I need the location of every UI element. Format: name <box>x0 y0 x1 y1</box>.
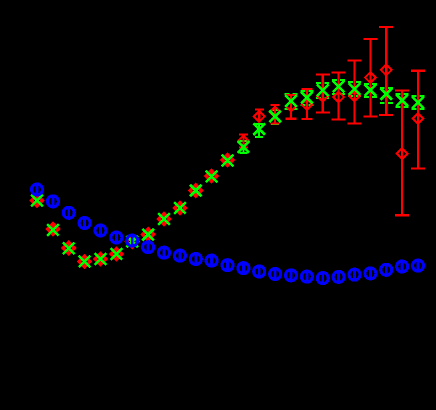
blue series open circle marker, point 23 <box>381 264 392 275</box>
red series open diamond marker, point 15 <box>254 111 265 122</box>
blue series open circle marker, point 10 <box>174 250 185 261</box>
red series error bar, point 18 <box>301 89 312 119</box>
blue series error bar, point 23 <box>385 263 388 277</box>
red series open diamond marker, point 22 <box>365 72 376 83</box>
green series error bar, point 6 <box>115 250 117 259</box>
blue series error bar, point 25 <box>417 259 420 273</box>
green series error bar, point 21 <box>348 82 361 96</box>
green series error bar, point 10 <box>179 204 181 213</box>
red series error bar, point 20 <box>332 73 346 120</box>
green series X cross marker, point 13 <box>222 155 234 167</box>
blue series error bar, point 3 <box>67 206 70 220</box>
blue series open circle marker, point 24 <box>397 261 408 272</box>
red series error bar, point 4 <box>83 259 85 265</box>
red series error bar, point 21 <box>348 61 362 124</box>
blue series error bar, point 4 <box>83 216 86 230</box>
blue series error bar, point 9 <box>163 246 166 260</box>
green series X cross marker, point 12 <box>206 171 218 183</box>
red series error bar, point 11 <box>195 188 197 194</box>
red series open diamond marker, point 4 <box>79 256 90 267</box>
blue series open circle marker, point 25 <box>413 260 424 271</box>
green series error bar, point 14 <box>239 141 247 153</box>
red series error bar, point 12 <box>211 173 213 179</box>
red series error bar, point 14 <box>239 135 248 148</box>
red series open diamond marker, point 13 <box>222 154 233 165</box>
red series open diamond marker, point 1 <box>31 195 42 206</box>
red series open diamond marker, point 21 <box>349 91 360 102</box>
blue series error bar, point 16 <box>274 267 277 281</box>
blue series error bar, point 1 <box>36 183 39 197</box>
blue series error bar, point 19 <box>321 271 324 285</box>
green series X cross marker, point 22 <box>365 84 377 96</box>
blue series open circle marker, point 21 <box>349 269 360 280</box>
blue series open circle marker, point 16 <box>270 269 281 280</box>
green series error bar, point 11 <box>195 186 197 195</box>
blue series open circle marker, point 6 <box>111 232 122 243</box>
green series error bar, point 3 <box>68 244 70 253</box>
red series open diamond marker, point 12 <box>206 170 217 181</box>
green series X cross marker, point 17 <box>285 95 297 107</box>
red series open diamond marker, point 25 <box>413 113 424 124</box>
blue series error bar, point 13 <box>226 258 229 272</box>
green series X cross marker, point 14 <box>238 141 250 153</box>
blue series open circle marker, point 14 <box>238 263 249 274</box>
green series X cross marker, point 4 <box>79 256 91 268</box>
blue series open circle marker, point 15 <box>254 266 265 277</box>
green series error bar, point 23 <box>380 88 393 103</box>
blue series error bar, point 20 <box>337 270 340 284</box>
green series X cross marker, point 9 <box>158 213 170 225</box>
red series error bar, point 17 <box>286 95 297 119</box>
blue series open circle marker, point 2 <box>47 196 58 207</box>
red series open diamond marker, point 7 <box>127 236 138 247</box>
green series error bar, point 13 <box>226 156 228 165</box>
green series error bar, point 9 <box>163 215 165 224</box>
red series error bar, point 9 <box>163 216 165 222</box>
red series error bar, point 3 <box>68 245 70 251</box>
blue series error bar, point 7 <box>131 234 134 248</box>
blue series open circle marker, point 18 <box>301 271 312 282</box>
green series error bar, point 22 <box>364 84 377 97</box>
blue series open circle marker, point 11 <box>190 254 201 265</box>
red series error bar, point 2 <box>52 226 54 232</box>
green series X cross marker, point 19 <box>317 84 329 96</box>
red series open diamond marker, point 5 <box>95 253 106 264</box>
blue series error bar, point 15 <box>258 265 261 279</box>
green series error bar, point 7 <box>131 237 133 246</box>
red series error bar, point 13 <box>226 157 228 163</box>
green series error bar, point 18 <box>300 91 313 105</box>
green series error bar, point 17 <box>285 94 298 109</box>
blue series open circle marker, point 22 <box>365 268 376 279</box>
red series open diamond marker, point 17 <box>286 101 297 112</box>
blue series error bar, point 18 <box>305 270 308 284</box>
blue series open circle marker, point 1 <box>32 184 43 195</box>
green series error bar, point 12 <box>211 172 213 181</box>
blue series error bar, point 24 <box>401 260 404 274</box>
green series X cross marker, point 18 <box>301 92 313 104</box>
green series X cross marker, point 6 <box>111 248 123 260</box>
green series X cross marker, point 25 <box>412 97 424 109</box>
blue series error bar, point 6 <box>115 231 118 245</box>
red series error bar, point 7 <box>131 239 133 245</box>
blue series open circle marker, point 19 <box>317 273 328 284</box>
blue series error bar, point 10 <box>178 249 181 263</box>
red series open diamond marker, point 10 <box>174 202 185 213</box>
red series open diamond marker, point 9 <box>158 213 169 224</box>
red series open diamond marker, point 16 <box>270 107 281 118</box>
green series X cross marker, point 7 <box>127 236 139 248</box>
blue series open circle marker, point 4 <box>79 218 90 229</box>
blue series error bar, point 8 <box>147 240 150 254</box>
red series error bar, point 23 <box>379 27 393 115</box>
green series error bar, point 2 <box>52 226 54 235</box>
red series error bar, point 1 <box>36 198 38 204</box>
red series error bar, point 10 <box>179 205 181 211</box>
green series error bar, point 19 <box>316 83 329 98</box>
green series X cross marker, point 24 <box>396 95 408 107</box>
blue series open circle marker, point 3 <box>63 207 74 218</box>
green series X cross marker, point 15 <box>253 123 265 135</box>
blue series error bar, point 11 <box>194 252 197 266</box>
green series X cross marker, point 16 <box>269 111 281 123</box>
red series error bar, point 24 <box>395 90 409 215</box>
red series open diamond marker, point 18 <box>302 99 313 110</box>
blue series open circle marker, point 17 <box>286 270 297 281</box>
green series error bar, point 16 <box>271 110 279 124</box>
red series open diamond marker, point 14 <box>238 136 249 147</box>
green series X cross marker, point 3 <box>63 243 75 255</box>
red series open diamond marker, point 23 <box>381 65 392 76</box>
red series error bar, point 15 <box>255 110 264 123</box>
green series X cross marker, point 11 <box>190 185 202 197</box>
green series error bar, point 4 <box>83 257 85 266</box>
green series X cross marker, point 10 <box>174 202 186 214</box>
green series error bar, point 25 <box>412 96 425 109</box>
red series open diamond marker, point 20 <box>333 92 344 103</box>
blue series error bar, point 2 <box>52 195 55 209</box>
green series error bar, point 1 <box>36 196 38 205</box>
blue series open circle marker, point 5 <box>95 225 106 236</box>
red series error bar, point 6 <box>115 251 117 257</box>
blue series open circle marker, point 20 <box>333 271 344 282</box>
red series open diamond marker, point 11 <box>190 185 201 196</box>
blue series open circle marker, point 7 <box>127 235 138 246</box>
red series open diamond marker, point 24 <box>397 148 408 159</box>
blue series error bar, point 17 <box>290 269 293 283</box>
red series open diamond marker, point 2 <box>47 223 58 234</box>
blue series error bar, point 5 <box>99 224 102 238</box>
green series X cross marker, point 21 <box>349 83 361 95</box>
green series X cross marker, point 2 <box>47 224 59 236</box>
blue series error bar, point 21 <box>353 268 356 282</box>
red series error bar, point 8 <box>147 231 149 237</box>
green series error bar, point 20 <box>332 80 345 94</box>
red series open diamond marker, point 6 <box>111 248 122 259</box>
red series open diamond marker, point 3 <box>63 242 74 253</box>
green series X cross marker, point 1 <box>31 195 43 207</box>
red series error bar, point 25 <box>411 71 425 169</box>
red series error bar, point 5 <box>99 256 101 262</box>
blue series error bar, point 22 <box>369 267 372 281</box>
green series error bar, point 8 <box>147 230 149 239</box>
red series error bar, point 22 <box>363 39 377 117</box>
blue series open circle marker, point 9 <box>159 247 170 258</box>
red series error bar, point 19 <box>316 75 330 113</box>
blue series open circle marker, point 12 <box>206 255 217 266</box>
green series error bar, point 15 <box>255 124 263 137</box>
green series error bar, point 5 <box>99 255 101 264</box>
red series open diamond marker, point 8 <box>143 229 154 240</box>
green series X cross marker, point 20 <box>333 81 345 93</box>
blue series open circle marker, point 8 <box>143 242 154 253</box>
red series error bar, point 16 <box>271 105 280 124</box>
blue series error bar, point 14 <box>242 261 245 275</box>
green series error bar, point 24 <box>396 94 409 107</box>
green series X cross marker, point 23 <box>380 88 392 100</box>
red series open diamond marker, point 19 <box>317 91 328 102</box>
blue series error bar, point 12 <box>210 254 213 268</box>
green series X cross marker, point 8 <box>142 229 154 241</box>
green series X cross marker, point 5 <box>95 253 107 265</box>
blue series open circle marker, point 13 <box>222 260 233 271</box>
